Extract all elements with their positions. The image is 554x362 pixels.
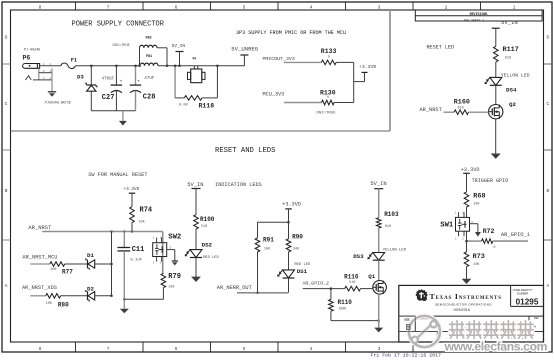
svg-text:100: 100 — [50, 268, 56, 272]
power section box right edge — [389, 10, 391, 131]
svg-text:AR_GPIO_2: AR_GPIO_2 — [303, 281, 329, 287]
svg-text:AR_GPIO_1: AR_GPIO_1 — [501, 232, 530, 238]
svg-text:INDICATION LEDS: INDICATION LEDS — [215, 182, 262, 188]
ground under C11 rail — [123, 299, 125, 308]
svg-text:+3.3VD: +3.3VD — [282, 201, 301, 207]
svg-text:470UF: 470UF — [102, 78, 115, 82]
svg-text:100K: 100K — [338, 308, 347, 312]
resistor R100 — [194, 215, 199, 229]
svg-text:+: + — [137, 79, 140, 84]
svg-text:DS1: DS1 — [297, 268, 308, 275]
svg-text:B: B — [406, 323, 411, 332]
svg-text:510: 510 — [349, 281, 355, 285]
svg-text:AR_NRST: AR_NRST — [420, 107, 442, 113]
svg-text:RED LED: RED LED — [294, 263, 311, 267]
svg-text:C28: C28 — [143, 94, 156, 102]
resistor R110 — [330, 289, 332, 300]
svg-text:R117: R117 — [503, 46, 519, 54]
ground under C27/C28 — [91, 110, 135, 112]
svg-text:C: C — [5, 102, 8, 107]
ground under DS2 — [191, 277, 201, 282]
svg-text:CODE IDENTITY: CODE IDENTITY — [513, 288, 533, 292]
svg-text:REVISIONS: REVISIONS — [470, 12, 488, 16]
svg-text:01295: 01295 — [516, 297, 539, 306]
svg-text:A: A — [547, 284, 550, 289]
svg-text:09/5/2016: 09/5/2016 — [453, 308, 469, 312]
svg-text:D: D — [5, 36, 8, 41]
transistor Q1 — [373, 281, 387, 295]
svg-text:Q1: Q1 — [368, 273, 375, 280]
svg-text:5: 5 — [243, 347, 246, 352]
svg-text:PJ002AH.BAT36: PJ002AH.BAT36 — [45, 101, 71, 105]
svg-text:10K: 10K — [473, 263, 480, 267]
svg-text:8: 8 — [39, 5, 42, 10]
wire rail FB1 to 5V_UNREG — [158, 65, 244, 67]
svg-text:R118: R118 — [199, 102, 215, 109]
svg-text:SEE SHEET 2: SEE SHEET 2 — [464, 18, 485, 22]
svg-text:SW1: SW1 — [440, 221, 454, 229]
resistor R117 — [494, 46, 499, 62]
code identity cell — [510, 285, 512, 306]
svg-text:R103: R103 — [384, 211, 399, 218]
node D3 junction — [90, 65, 92, 67]
svg-text:R79: R79 — [168, 273, 181, 281]
svg-text:7: 7 — [107, 347, 110, 352]
svg-text:0.00: 0.00 — [179, 104, 188, 108]
svg-text:www.elecfans.com: www.elecfans.com — [444, 339, 548, 353]
svg-text:AR_NRST_MCU: AR_NRST_MCU — [23, 255, 58, 261]
svg-text:0: 0 — [327, 95, 329, 99]
resistor R90 — [286, 239, 291, 252]
svg-text:TRIGGER GPIO: TRIGGER GPIO — [472, 178, 509, 184]
svg-text:POWER SUPPLY CONNECTOR: POWER SUPPLY CONNECTOR — [72, 21, 165, 29]
svg-text:5V_IN: 5V_IN — [370, 181, 386, 187]
svg-text:B: B — [547, 189, 550, 194]
svg-text:5V_IN: 5V_IN — [501, 19, 518, 26]
svg-text:YELLOW LED: YELLOW LED — [501, 72, 530, 78]
svg-text:NUMBER: NUMBER — [517, 292, 528, 296]
svg-text:+3.3VD: +3.3VD — [461, 167, 480, 173]
power section box bottom edge — [11, 130, 391, 132]
svg-text:5: 5 — [243, 5, 246, 10]
svg-text:D3: D3 — [77, 73, 84, 80]
svg-text:SW FOR MANUAL RESET: SW FOR MANUAL RESET — [88, 172, 147, 178]
svg-text:YELLOW LED: YELLOW LED — [383, 248, 407, 252]
svg-text:C27: C27 — [102, 94, 115, 102]
capacitor C11 — [123, 232, 125, 248]
svg-text:F1: F1 — [71, 58, 77, 64]
svg-text:Q2: Q2 — [509, 101, 516, 108]
wire tee to R91 — [258, 221, 289, 223]
svg-text:+3.3VD: +3.3VD — [359, 64, 376, 70]
wire Q2 to ground — [495, 119, 497, 154]
svg-text:3P3 SUPPLY FROM PMIC OR FROM T: 3P3 SUPPLY FROM PMIC OR FROM THE MCU — [236, 30, 346, 36]
svg-text:MCU_3V3: MCU_3V3 — [263, 92, 285, 98]
resistor R73 — [464, 252, 469, 267]
svg-text:3: 3 — [378, 347, 381, 352]
svg-text:7: 7 — [107, 5, 110, 10]
ground under Q2 — [491, 154, 501, 159]
svg-text:RED LED: RED LED — [203, 256, 219, 260]
svg-text:P6: P6 — [23, 55, 31, 62]
zone ticks top/bottom — [75, 2, 77, 10]
arrow from SW1 pin to gpio wire — [470, 223, 478, 225]
svg-text:SEMICONDUCTOR OPERATIONS: SEMICONDUCTOR OPERATIONS — [435, 303, 492, 307]
svg-text:PJ-002AH: PJ-002AH — [24, 48, 40, 52]
power flag +3.3VD (pmic join) — [353, 62, 355, 102]
svg-text:SW2: SW2 — [168, 234, 181, 242]
svg-text:5V_IN: 5V_IN — [187, 182, 203, 188]
resistor R103 — [376, 218, 381, 228]
svg-text:DNI=TRUE: DNI=TRUE — [316, 111, 336, 115]
svg-text:10K: 10K — [264, 247, 271, 251]
wire F1 to FB1 — [75, 65, 140, 67]
svg-text:AR_NRST_XDS: AR_NRST_XDS — [22, 285, 57, 291]
svg-text:340: 340 — [293, 247, 299, 251]
wire DS4 to Q2 — [495, 85, 497, 104]
junction wire down to D1/D2 — [111, 232, 113, 296]
resistor R68 — [464, 192, 469, 207]
transistor Q2 — [489, 105, 503, 119]
ground under Q1 — [378, 321, 380, 328]
svg-text:100: 100 — [46, 302, 52, 306]
revisions block — [415, 10, 542, 21]
title block frame — [399, 285, 544, 342]
svg-text:8: 8 — [39, 347, 42, 352]
svg-text:AR_NRST: AR_NRST — [28, 224, 52, 231]
svg-text:Texas Instruments: Texas Instruments — [430, 292, 502, 301]
svg-text:3: 3 — [378, 5, 381, 10]
svg-text:R116: R116 — [344, 274, 359, 281]
svg-text:DNI=TRUE: DNI=TRUE — [113, 44, 130, 48]
svg-text:R110: R110 — [338, 299, 353, 306]
svg-text:5V_UNREG: 5V_UNREG — [231, 45, 258, 52]
svg-text:5V_IN: 5V_IN — [172, 44, 186, 49]
svg-text:47UF: 47UF — [144, 77, 155, 81]
resistor R74 — [130, 207, 135, 223]
svg-text:R68: R68 — [473, 193, 485, 201]
svg-text:R77: R77 — [62, 268, 73, 275]
svg-text:F6: F6 — [193, 56, 197, 60]
svg-text:R74: R74 — [140, 206, 153, 214]
svg-text:REV: REV — [534, 317, 539, 320]
resistor R118 — [174, 66, 176, 98]
svg-text:610: 610 — [458, 106, 464, 110]
watermark logo circle — [409, 316, 440, 347]
svg-text:D1: D1 — [87, 252, 94, 259]
svg-text:+: + — [120, 79, 123, 84]
svg-text:D2: D2 — [87, 285, 94, 292]
wire gnd rail under C11/R79 — [124, 298, 163, 300]
svg-text:4: 4 — [310, 5, 313, 10]
svg-text:6: 6 — [175, 347, 178, 352]
wire R117 to DS4 — [495, 62, 497, 78]
zone ticks left/right — [2, 63, 11, 65]
svg-text:610: 610 — [385, 225, 391, 229]
watermark chinese characters (drawn) — [450, 321, 465, 339]
svg-text:FB1: FB1 — [146, 55, 152, 59]
svg-text:SIZE: SIZE — [404, 319, 410, 322]
svg-text:10K: 10K — [139, 220, 146, 224]
ground at P6 — [51, 80, 53, 92]
svg-text:4: 4 — [310, 347, 313, 352]
svg-text:R90: R90 — [292, 234, 303, 241]
svg-text:100: 100 — [473, 203, 479, 207]
svg-text:R72: R72 — [483, 228, 495, 235]
svg-text:FB2: FB2 — [146, 37, 152, 41]
svg-text:RESET AND LEDS: RESET AND LEDS — [215, 147, 275, 155]
svg-text:6: 6 — [175, 5, 178, 10]
svg-text:C: C — [547, 102, 550, 107]
svg-text:Fri Feb 17 18:22:16 2017: Fri Feb 17 18:22:16 2017 — [371, 353, 442, 359]
resistor R79 — [161, 273, 166, 287]
ground at SW2 — [167, 249, 175, 251]
svg-text:510: 510 — [201, 225, 207, 229]
wire R110 to Q1 source rail — [331, 320, 379, 322]
svg-text:0: 0 — [328, 55, 330, 59]
svg-text:R80: R80 — [58, 302, 69, 309]
ground under R73 — [462, 279, 472, 284]
svg-text:D: D — [547, 36, 550, 41]
svg-text:AR_NERR_OUT: AR_NERR_OUT — [217, 285, 252, 291]
svg-text:RESET LED: RESET LED — [427, 45, 455, 51]
TI logo — [416, 290, 428, 301]
svg-text:100: 100 — [168, 286, 174, 290]
svg-text:R91: R91 — [263, 237, 274, 244]
wire P6 to F1 — [39, 65, 61, 67]
svg-text:R73: R73 — [473, 253, 485, 261]
svg-text:0.1UF: 0.1UF — [130, 259, 143, 263]
svg-text:0: 0 — [494, 245, 496, 249]
svg-text:R100: R100 — [200, 216, 215, 223]
svg-text:C11: C11 — [132, 246, 145, 254]
svg-text:610: 610 — [505, 56, 511, 60]
svg-text:A: A — [5, 284, 8, 289]
resistor R91 — [255, 238, 260, 252]
svg-text:+3.3VD: +3.3VD — [124, 187, 140, 192]
svg-text:PMICOUT_3V3: PMICOUT_3V3 — [263, 56, 295, 62]
svg-text:DS2: DS2 — [202, 241, 213, 248]
svg-text:B: B — [5, 189, 8, 194]
svg-text:DS3: DS3 — [353, 253, 364, 260]
svg-text:DS4: DS4 — [506, 87, 517, 94]
